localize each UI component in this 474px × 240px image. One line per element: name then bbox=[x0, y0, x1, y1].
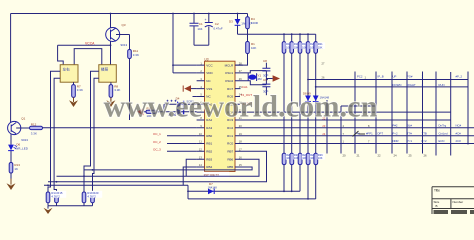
wire pin21 row bbox=[243, 119, 451, 121]
capacitor C1 bbox=[190, 14, 203, 46]
svg-text:IP_B: IP_B bbox=[378, 75, 384, 79]
wire grid vertical G2 bbox=[375, 72, 377, 154]
resistor R1 bbox=[235, 34, 256, 65]
wire vertical bus 5 bbox=[315, 53, 317, 153]
wire grid vertical G9 bbox=[326, 100, 328, 154]
node part label under U3 bbox=[203, 172, 230, 178]
svg-text:VCC: VCC bbox=[206, 63, 213, 67]
diode D6 LED bbox=[8, 142, 29, 162]
svg-text:RUN: RUN bbox=[439, 83, 445, 87]
svg-text:3.3K: 3.3K bbox=[31, 131, 37, 135]
svg-text:R12: R12 bbox=[31, 123, 37, 127]
svg-text:#P_2: #P_2 bbox=[456, 75, 463, 79]
resistor R25 bottom bbox=[306, 153, 317, 165]
resistor network RP1 bbox=[46, 191, 66, 206]
resistor R4 bbox=[246, 14, 259, 35]
capacitor C9 bbox=[262, 78, 270, 95]
wire vertical bus 3 bbox=[299, 53, 301, 153]
svg-text:#C#: #C# bbox=[456, 131, 462, 135]
ground under R8 bbox=[106, 97, 115, 107]
ground under R7 bbox=[69, 97, 78, 107]
svg-text:VDD: VDD bbox=[206, 71, 213, 75]
svg-text:RC1: RC1 bbox=[227, 134, 233, 138]
svg-text:RA3: RA3 bbox=[206, 126, 212, 130]
svg-text:OC_3: OC_3 bbox=[153, 148, 161, 152]
wire relay K1 to K2 top link bbox=[74, 49, 102, 65]
diode D5 bbox=[177, 101, 189, 118]
resistor network RP2 bbox=[82, 191, 102, 206]
wire vertical bus 4 bbox=[307, 53, 309, 153]
node labels row pin20 bbox=[357, 131, 462, 135]
power arrow VCCA left bbox=[137, 108, 144, 115]
svg-text:VCCA: VCCA bbox=[85, 42, 95, 46]
svg-text:10K: 10K bbox=[251, 46, 256, 50]
wire pin13 wrap down bbox=[186, 159, 196, 176]
U3 pin numbers right bbox=[239, 61, 242, 167]
diode D8 bbox=[305, 96, 311, 102]
node OC_3 label pin12 bbox=[153, 148, 197, 152]
node labels row P26 bbox=[393, 83, 445, 87]
wire grid vertical G5 bbox=[422, 72, 424, 154]
svg-text:D3: D3 bbox=[229, 20, 233, 24]
svg-text:TTB: TTB bbox=[422, 131, 427, 135]
svg-text:3.3K: 3.3K bbox=[133, 53, 139, 57]
svg-text:MCLR: MCLR bbox=[225, 63, 234, 67]
U3 pin stubs left bbox=[197, 65, 205, 167]
diode D3 bbox=[229, 14, 252, 35]
resistor R13 bbox=[9, 163, 20, 184]
svg-text:+: + bbox=[205, 18, 207, 22]
ground under RP1 bbox=[44, 206, 53, 214]
svg-text:#FP1: #FP1 bbox=[366, 131, 373, 135]
node numbers below grid bbox=[343, 153, 428, 157]
svg-text:1K: 1K bbox=[14, 167, 18, 171]
ground under R13 bbox=[7, 179, 16, 191]
wire VCC top rail bbox=[11, 13, 248, 15]
node marks black column bbox=[343, 124, 371, 144]
svg-text:U3: U3 bbox=[205, 57, 209, 61]
wire grid vertical G1 bbox=[354, 72, 356, 154]
svg-text:4M: 4M bbox=[257, 77, 262, 81]
svg-text:24: 24 bbox=[394, 153, 398, 157]
svg-text:9013: 9013 bbox=[21, 138, 28, 142]
wire grid vertical G6 bbox=[435, 72, 437, 156]
svg-text:T7#: T7# bbox=[407, 131, 412, 135]
wire branch P27 bbox=[308, 79, 468, 81]
node OC_2 label pin11 bbox=[153, 140, 197, 144]
svg-text:PC2: PC2 bbox=[357, 75, 363, 79]
svg-text:NDR: NDR bbox=[393, 139, 399, 143]
wire pin5 stub ext bbox=[193, 96, 197, 98]
wire cap common node bbox=[194, 44, 209, 46]
svg-text:25: 25 bbox=[409, 153, 413, 157]
wire bus1 tail bbox=[283, 153, 285, 191]
svg-text:26: 26 bbox=[424, 153, 428, 157]
svg-text:BL#: BL# bbox=[407, 123, 412, 127]
wire pin14 wrap down bbox=[183, 167, 196, 185]
wire bus3 tail bbox=[299, 153, 301, 191]
svg-text:P<2: P<2 bbox=[422, 139, 427, 143]
wire K2 left pin B bbox=[93, 78, 99, 192]
svg-text:10K: 10K bbox=[318, 45, 323, 49]
svg-text:RB4: RB4 bbox=[206, 165, 212, 169]
wire Q3 emitter down to K2 bbox=[110, 42, 112, 65]
svg-text:ECN: ECN bbox=[439, 139, 445, 143]
node marks red column bbox=[322, 116, 325, 136]
node labels row P27 bbox=[357, 75, 462, 79]
svg-text:104: 104 bbox=[197, 27, 202, 31]
svg-text:1N4148: 1N4148 bbox=[208, 186, 218, 190]
U3 pin names left bbox=[206, 63, 213, 169]
resistor R22 bottom bbox=[282, 153, 293, 165]
resistor R11 bbox=[128, 35, 139, 121]
wire pin19 row bbox=[243, 135, 474, 137]
svg-text:FG#: FG# bbox=[407, 75, 413, 79]
svg-text:C1: C1 bbox=[199, 22, 203, 26]
resistor R26 bottom bbox=[314, 153, 325, 165]
diode D7 bbox=[208, 182, 218, 194]
wire VCC feed to pins 1,2 bbox=[173, 14, 197, 73]
resistor R24 bottom bbox=[298, 153, 309, 165]
svg-text:10K: 10K bbox=[318, 156, 323, 160]
svg-text:20: 20 bbox=[343, 153, 347, 157]
wire D4 loop down bbox=[163, 104, 165, 112]
wire grid vertical G4 bbox=[406, 72, 408, 154]
resistor R8 under K2 bbox=[109, 82, 120, 100]
svg-text:B: B bbox=[436, 204, 438, 208]
resistor R19 pull-up bbox=[298, 34, 309, 53]
wire bus5 tail bbox=[315, 153, 317, 199]
svg-text:30P: 30P bbox=[263, 74, 268, 78]
svg-text:OSC1: OSC1 bbox=[225, 71, 234, 75]
wire VCCA net bbox=[58, 44, 111, 46]
svg-text:www.eeworld.com.cn: www.eeworld.com.cn bbox=[104, 89, 378, 124]
capacitor C2 electrolytic bbox=[205, 14, 223, 46]
wire pin20 row bbox=[243, 127, 474, 129]
svg-text:DPT: DPT bbox=[378, 131, 384, 135]
svg-text:P<1: P<1 bbox=[407, 139, 412, 143]
svg-text:RB0: RB0 bbox=[206, 134, 212, 138]
svg-text:OC_2: OC_2 bbox=[153, 140, 161, 144]
resistor R16 on pin7 row bbox=[144, 107, 197, 118]
node marks above D4 wire bbox=[167, 100, 177, 102]
wire grid vertical G7 bbox=[450, 72, 452, 156]
svg-text:R21: R21 bbox=[318, 42, 323, 46]
power arrow pin4 VSS bbox=[183, 85, 196, 92]
crystal Y1 bbox=[243, 71, 266, 85]
wire grid vertical G3 bbox=[391, 72, 393, 154]
wire bottom bus C bbox=[188, 198, 316, 200]
transistor Q3 bbox=[106, 14, 130, 48]
svg-text:22: 22 bbox=[378, 153, 382, 157]
svg-text:RB5: RB5 bbox=[227, 165, 233, 169]
U3 pin names right bbox=[225, 63, 234, 169]
wire K1 left pin A bbox=[48, 71, 60, 192]
svg-text:DOWN: DOWN bbox=[393, 83, 402, 87]
svg-text:2C#: 2C# bbox=[456, 139, 462, 143]
wire branch P26 bbox=[316, 86, 468, 88]
svg-text:Q1: Q1 bbox=[21, 117, 25, 121]
resistor R23 bottom bbox=[290, 153, 301, 165]
wire grid link bbox=[341, 105, 376, 107]
svg-text:100R: 100R bbox=[251, 21, 259, 25]
power arrow right of crystal bbox=[266, 75, 280, 82]
svg-text:0.47uF: 0.47uF bbox=[213, 26, 223, 30]
node labels row pin19 bbox=[393, 139, 462, 143]
wire bottom bus A bbox=[44, 185, 188, 199]
wire grid vertical G8 bbox=[467, 72, 469, 145]
wire pin22 row bbox=[243, 111, 451, 113]
svg-text:RB6: RB6 bbox=[227, 157, 233, 161]
resistor R7 under K1 bbox=[72, 82, 83, 100]
wire pin15 wrap bbox=[84, 167, 252, 170]
node labels row pin21 bbox=[393, 123, 462, 127]
svg-text:D7: D7 bbox=[209, 182, 213, 186]
svg-text:OC_1: OC_1 bbox=[153, 132, 161, 136]
svg-text:OSC2: OSC2 bbox=[225, 79, 234, 83]
svg-text:RB2: RB2 bbox=[206, 150, 212, 154]
svg-text:P#2: P#2 bbox=[393, 123, 398, 127]
switch symbol on row pin20 bbox=[353, 131, 366, 137]
svg-text:UP: UP bbox=[393, 75, 397, 79]
wire bus4 tail bbox=[307, 153, 309, 199]
svg-text:9013: 9013 bbox=[121, 43, 128, 47]
svg-text:RB7: RB7 bbox=[227, 150, 233, 154]
resistor R17 pull-up bbox=[282, 34, 293, 53]
svg-text:3.3K: 3.3K bbox=[77, 88, 83, 92]
resistor R21 pull-up bbox=[314, 34, 325, 53]
svg-text:CntLed: CntLed bbox=[439, 131, 448, 135]
svg-text:RB1: RB1 bbox=[206, 142, 212, 146]
wire vertical bus 1 bbox=[283, 53, 285, 153]
svg-text:P<2: P<2 bbox=[393, 131, 398, 135]
svg-text:21: 21 bbox=[357, 153, 361, 157]
resistor R20 pull-up bbox=[306, 34, 317, 53]
svg-text:NC#: NC# bbox=[456, 123, 462, 127]
svg-text:Q3: Q3 bbox=[122, 23, 126, 27]
svg-text:楼层: 楼层 bbox=[101, 67, 109, 72]
title block frame bbox=[432, 187, 474, 214]
relay box K2 bbox=[99, 65, 117, 83]
wire pin16 wrap bbox=[57, 159, 260, 176]
svg-text:4.7K*2: 4.7K*2 bbox=[51, 194, 60, 198]
diode D9 bbox=[303, 92, 330, 102]
svg-text:RIGHT: RIGHT bbox=[407, 83, 416, 87]
svg-text:4.7K*2: 4.7K*2 bbox=[87, 194, 96, 198]
svg-text:左右: 左右 bbox=[63, 67, 71, 72]
svg-text:RC2: RC2 bbox=[227, 126, 233, 130]
node marks below D5 wire bbox=[169, 114, 176, 116]
svg-text:C8: C8 bbox=[263, 59, 267, 63]
wire pin17 wrap bbox=[48, 151, 267, 182]
svg-text:Number: Number bbox=[453, 200, 464, 204]
wire bottom bus B with D7 bbox=[188, 190, 300, 192]
IC U3 microcontroller bbox=[205, 57, 236, 171]
wire grid vertical G10 bbox=[340, 106, 342, 154]
wire K2 left pin A bbox=[84, 71, 99, 192]
wire VCCA to relay box K1 bbox=[58, 45, 64, 64]
relay box K1 bbox=[60, 65, 78, 83]
wire bus2 tail bbox=[291, 153, 293, 191]
wire vertical bus 2 bbox=[291, 53, 293, 153]
svg-text:RB3: RB3 bbox=[206, 157, 212, 161]
wire K1 left pin B bbox=[54, 78, 60, 192]
diode D4 bbox=[164, 96, 197, 107]
transistor Q1 bbox=[8, 117, 30, 145]
resistor R18 pull-up bbox=[290, 34, 301, 53]
capacitor C8 bbox=[262, 59, 270, 84]
resistor R12 bbox=[30, 123, 197, 136]
svg-text:WR_LED: WR_LED bbox=[15, 147, 28, 151]
U3 pin stubs right bbox=[235, 65, 243, 167]
node OC_1 label pin10 bbox=[153, 132, 197, 136]
wire RP common bbox=[48, 205, 93, 207]
wire pin18 row bbox=[243, 143, 474, 145]
U3 pin numbers left bbox=[199, 61, 202, 167]
wire node line under D3/R4 bbox=[238, 33, 316, 35]
wire left frame net bbox=[10, 14, 12, 123]
svg-text:RC0: RC0 bbox=[227, 142, 233, 146]
svg-text:DnTrg: DnTrg bbox=[439, 123, 447, 127]
svg-text:Title: Title bbox=[434, 189, 440, 193]
